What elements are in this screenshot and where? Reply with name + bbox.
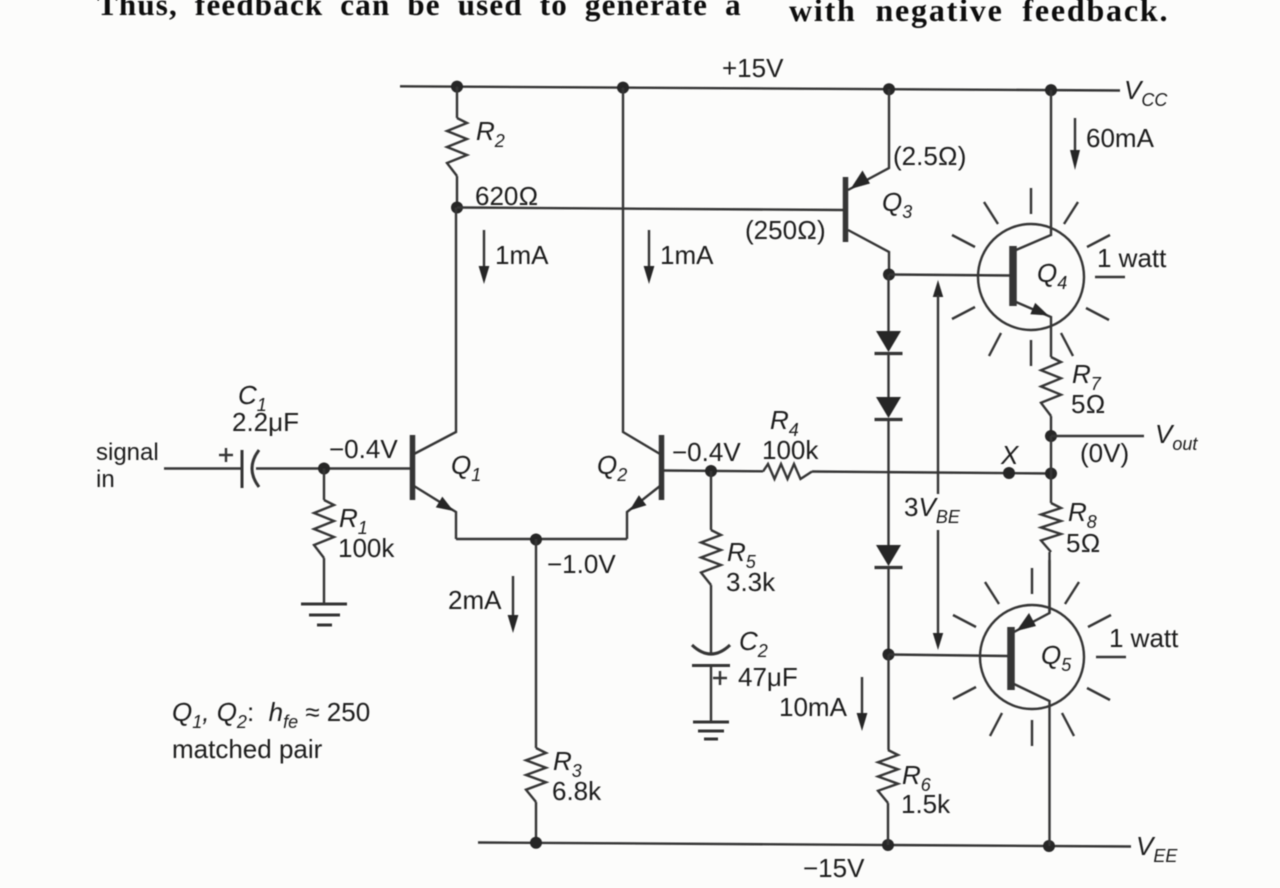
label R6 — [902, 760, 932, 795]
wire: R6 to bottom rail — [887, 803, 889, 845]
svg-text:X: X — [1000, 440, 1020, 470]
transistor Q1 collector — [414, 208, 456, 455]
wire: D3 to Q5 base node — [887, 567, 889, 655]
svg-text:6.8k: 6.8k — [552, 776, 602, 806]
label Q1 — [451, 450, 481, 485]
svg-text:100k: 100k — [762, 435, 819, 465]
plus sign of C1 — [219, 448, 233, 462]
wire: D1 to D2 — [887, 353, 889, 398]
svg-text:R2: R2 — [476, 116, 505, 151]
wire: D2 to D3 — [887, 419, 889, 546]
resistor R7 — [1041, 357, 1061, 416]
label -0.4V at Q2 base — [672, 437, 741, 467]
page text line right: "with negative feedback." — [789, 0, 1169, 28]
transistor Q2 emitter with arrow — [627, 486, 660, 539]
svg-text:C2: C2 — [739, 626, 768, 661]
wire: Vout node through X junction to R8 — [1050, 436, 1052, 503]
transistor Q4 collector — [1016, 90, 1051, 250]
node: junction dot Vout — [1045, 430, 1057, 442]
node: junction dot C1 / R1 / Q1 base — [318, 463, 330, 475]
label C1 — [238, 380, 267, 415]
wire: R1 to ground — [323, 558, 325, 604]
ground symbol below C2 — [693, 722, 729, 739]
label R1 — [339, 503, 368, 538]
node: junction dot top rail / Q4 collector — [1045, 84, 1057, 96]
node: junction dot diode string / Q5 base / R6 — [883, 649, 895, 661]
label -1.0V at emitters — [547, 549, 616, 579]
resistor R2 — [447, 118, 467, 176]
svg-text:R8: R8 — [1068, 497, 1097, 532]
wire: R5 branch from Q2 base node — [710, 471, 712, 530]
current arrow 2mA — [508, 576, 519, 633]
current arrow 60mA — [1070, 118, 1080, 170]
transistor Q4 base bar — [1009, 246, 1017, 306]
node: junction dot R2 / Q1 collector / Q3 base wire — [451, 202, 463, 214]
label 1 watt (Q5) — [1109, 623, 1179, 653]
svg-text:3.3k: 3.3k — [726, 567, 776, 597]
svg-text:3VBE: 3VBE — [904, 492, 961, 527]
node: junction dot bottom rail / R3 — [530, 837, 542, 849]
transistor Q4 circle — [978, 224, 1084, 330]
svg-text:100k: 100k — [338, 533, 395, 563]
label 1mA (left) — [495, 240, 549, 270]
wire: R7 to Vout node — [1050, 416, 1052, 436]
value 620 ohm — [475, 181, 538, 211]
svg-text:VEE: VEE — [1136, 831, 1178, 866]
wire: +15V top supply rail — [400, 86, 1120, 90]
transistor Q4 emitter with arrow — [1016, 302, 1051, 357]
value 5 ohm (R7) — [1071, 389, 1105, 419]
node: dot X on output wire — [1003, 467, 1015, 479]
svg-text:1mA: 1mA — [660, 240, 714, 270]
svg-text:5Ω: 5Ω — [1066, 528, 1100, 558]
wire: R2 to collector node — [456, 176, 458, 208]
capacitor C2 curved plate — [692, 645, 730, 654]
svg-text:−0.4V: −0.4V — [672, 437, 741, 467]
wire: top rail to R2 — [456, 87, 458, 118]
svg-text:Q2: Q2 — [597, 450, 627, 485]
label Q3 — [882, 187, 912, 222]
label Vee rail name — [1136, 831, 1178, 866]
resistor R8 — [1041, 503, 1061, 552]
label 3VBE — [904, 492, 961, 527]
svg-text:Q1: Q1 — [451, 450, 481, 485]
svg-text:+15V: +15V — [722, 53, 784, 83]
svg-text:−1.0V: −1.0V — [547, 549, 616, 579]
svg-text:Q4: Q4 — [1037, 258, 1067, 293]
label Vout — [1155, 419, 1198, 454]
svg-text:signal: signal — [96, 439, 159, 466]
node: junction dot top rail / Q2 collector — [617, 82, 629, 94]
transistor Q3 collector — [848, 230, 889, 274]
transistor Q5 emitter with arrow (PNP) — [1014, 560, 1050, 632]
label (2.5 ohm) at Q3 emitter — [893, 141, 966, 171]
label Q5 — [1041, 640, 1072, 675]
current arrow 1mA (left) — [479, 230, 490, 284]
diode D2 — [875, 397, 903, 420]
wire: Vout node to label — [1051, 435, 1144, 437]
wire: diode string top — [887, 275, 889, 333]
svg-text:VCC: VCC — [1124, 75, 1168, 110]
svg-text:60mA: 60mA — [1086, 123, 1155, 153]
node: junction dot X line / R8 column — [1045, 468, 1057, 480]
svg-text:in: in — [96, 466, 115, 493]
wire: Q5 base wire from diode node — [889, 655, 1009, 657]
node: junction dot top rail / Q3 emitter — [883, 83, 895, 95]
node: junction dot bottom rail / R6 — [882, 839, 894, 851]
wire: Q2 base to R4 — [663, 469, 763, 472]
svg-text:(2.5Ω): (2.5Ω) — [893, 141, 966, 171]
wire: node to R1 — [323, 469, 325, 501]
svg-text:2.2μF: 2.2μF — [232, 407, 299, 437]
svg-text:(0V): (0V) — [1080, 438, 1129, 468]
transistor Q5 base bar — [1007, 627, 1015, 690]
wire: R4 to node X — [812, 472, 1051, 474]
label R4 — [770, 405, 799, 440]
wire: C2 to ground — [710, 665, 712, 722]
current arrow 10mA — [857, 677, 868, 731]
transistor Q5 circle — [980, 605, 1084, 709]
transistor Q3 base bar — [843, 177, 849, 242]
transistor Q2 base bar — [659, 435, 665, 500]
wire: -15V bottom supply rail — [478, 843, 1131, 847]
plus sign of C2 — [713, 671, 727, 685]
node: junction dot bottom rail / Q5 collector — [1043, 840, 1055, 852]
svg-text:1mA: 1mA — [495, 240, 549, 270]
wire: Q1 collector node to Q3 base — [457, 208, 843, 211]
transistor Q5 collector — [1014, 684, 1050, 846]
label 2mA — [448, 585, 502, 615]
wire: emitter node down to R3 — [535, 539, 537, 748]
dimension arrow 3VBE (down arrowhead) — [933, 530, 943, 650]
wire: R3 to bottom rail — [535, 802, 537, 843]
svg-text:1.5k: 1.5k — [901, 789, 951, 819]
label 1mA (right) — [660, 240, 714, 270]
ground symbol below R1 — [301, 604, 347, 625]
diode D1 — [875, 331, 903, 354]
dimension arrow 3VBE (up arrowhead) — [933, 280, 943, 494]
wire: Q3 collector node to Q4 base — [889, 275, 1010, 276]
label R7 — [1072, 359, 1102, 394]
capacitor C1 (straight + plate) — [241, 450, 244, 488]
label -0.4V at Q1 base — [329, 434, 398, 464]
label -15V below bottom rail — [803, 853, 865, 883]
value 47uF — [738, 662, 798, 692]
label R2 — [476, 116, 505, 151]
svg-text:Q5: Q5 — [1041, 640, 1072, 675]
transistor Q3 emitter with arrow (PNP) — [848, 89, 889, 190]
resistor R6 — [878, 750, 898, 803]
label node X — [1000, 440, 1020, 470]
label Q2 — [597, 450, 627, 485]
svg-text:matched pair: matched pair — [172, 734, 323, 764]
svg-text:with negative feedback.: with negative feedback. — [789, 0, 1169, 28]
capacitor C1 curved plate — [252, 450, 259, 487]
label (250 ohm) at Q3 base — [745, 215, 826, 245]
wire: C1 to Q1 base — [256, 467, 410, 469]
wire: R5 to C2 — [710, 585, 712, 655]
label C2 — [739, 626, 768, 661]
svg-text:−0.4V: −0.4V — [329, 434, 398, 464]
node: junction dot Q2 base / R5 — [705, 465, 717, 477]
svg-text:Thus, feedback can be used to: Thus, feedback can be used to generate a — [97, 0, 742, 22]
transistor Q1 base bar — [410, 435, 416, 500]
transistor Q1 emitter with arrow — [414, 486, 456, 539]
svg-text:Q3: Q3 — [882, 187, 912, 222]
current arrow 1mA (right) — [644, 230, 655, 284]
svg-text:2mA: 2mA — [448, 585, 502, 615]
label R8 — [1068, 497, 1097, 532]
svg-text:1 watt: 1 watt — [1097, 243, 1167, 273]
resistor R5 — [701, 530, 721, 585]
svg-text:1 watt: 1 watt — [1109, 623, 1179, 653]
svg-text:Vout: Vout — [1155, 419, 1198, 454]
node: junction dot emitters / R3 — [530, 534, 542, 546]
heat rays around Q5 — [953, 568, 1126, 746]
svg-text:10mA: 10mA — [779, 692, 848, 722]
value 1.5k — [901, 789, 951, 819]
node: junction dot Q3 collector / diode string / Q4 base — [883, 269, 895, 281]
wire: signal in to C1 — [164, 467, 241, 469]
label 1 watt (Q4) — [1097, 243, 1167, 273]
label 10mA — [779, 692, 848, 722]
diode D3 — [875, 545, 903, 568]
wire: Q5 base node down to R6 — [887, 655, 889, 751]
value 5 ohm (R8) — [1066, 528, 1100, 558]
wire: R8 to Q5 emitter — [1048, 552, 1050, 613]
svg-text:(250Ω): (250Ω) — [745, 215, 826, 245]
value 100k — [762, 435, 819, 465]
value 6.8k — [552, 776, 602, 806]
label +15V on top rail — [722, 53, 784, 83]
svg-text:5Ω: 5Ω — [1071, 389, 1105, 419]
svg-text:47μF: 47μF — [738, 662, 798, 692]
resistor R4 — [763, 464, 812, 479]
label 60mA — [1086, 123, 1155, 153]
resistor R3 — [526, 748, 546, 802]
node: junction dot top rail / R2 — [451, 81, 463, 93]
value 3.3k — [726, 567, 776, 597]
label Vcc rail name — [1124, 75, 1168, 110]
heat rays around Q4 — [952, 188, 1125, 366]
note Q1,Q2 hfe — [172, 697, 370, 732]
page text line left: "Thus, feedback can be used to generate a" — [97, 0, 742, 22]
label R3 — [553, 746, 582, 781]
capacitor C2 straight + plate — [692, 664, 730, 667]
label (0V) — [1080, 438, 1129, 468]
label signal in — [96, 439, 159, 493]
svg-text:−15V: −15V — [803, 853, 865, 883]
wire: common emitter line Q1 Q2 — [456, 538, 627, 540]
value 100k — [338, 533, 395, 563]
resistor R1 — [314, 500, 334, 558]
value 2.2uF — [232, 407, 299, 437]
note matched pair — [172, 734, 323, 764]
transistor Q2 collector — [623, 88, 660, 454]
label Q4 — [1037, 258, 1067, 293]
label R5 — [727, 537, 757, 572]
svg-text:Q1, Q2: hfe ≈ 250: Q1, Q2: hfe ≈ 250 — [172, 697, 370, 732]
